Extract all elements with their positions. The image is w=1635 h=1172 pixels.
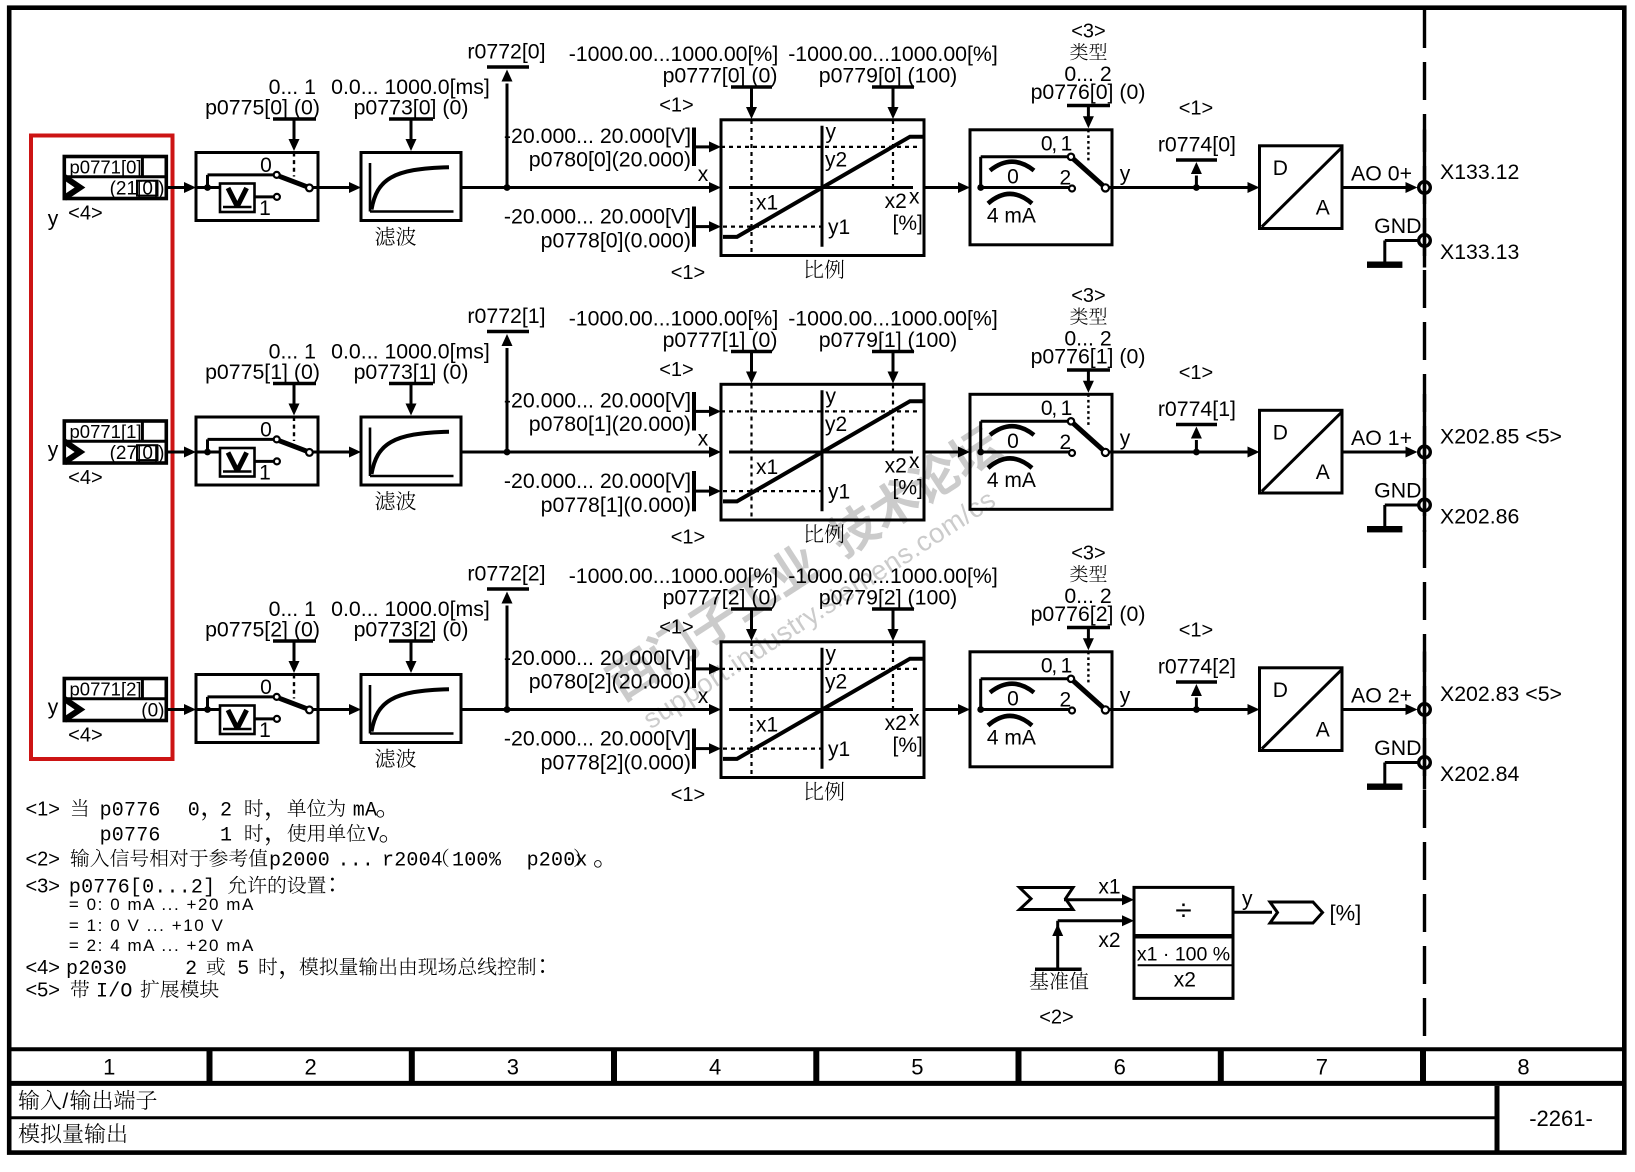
label 类型 (type) row 0 [1070,43,1088,60]
svg-text:4 mA: 4 mA [987,205,1036,228]
svg-text:-20.000... 20.000[V]: -20.000... 20.000[V] [504,469,691,493]
D/A converter row 2 [1260,668,1343,751]
svg-text:y: y [48,696,59,719]
wire switch to filter row 2 [318,708,350,711]
ground symbol row 2 [1385,761,1418,764]
switch block with limiter, p0775[2] [196,675,318,743]
svg-text:p0776: p0776 [100,824,161,847]
svg-text:<2>: <2> [26,848,60,870]
svg-text:1: 1 [259,197,271,220]
svg-text:p0778[2](0.000): p0778[2](0.000) [541,751,691,775]
svg-text:<3>: <3> [26,875,60,897]
svg-text:V: V [368,824,380,847]
wire switch to filter row 1 [318,451,350,454]
svg-text:[%]: [%] [893,477,923,500]
BICO bar and arrow p0779[1] [872,350,914,354]
connector input p0771[0] [64,157,166,200]
svg-text:<1>: <1> [671,262,705,284]
svg-text:(0): (0) [141,701,164,722]
svg-text:<1>: <1> [671,784,705,806]
wire filter to scaling block row 1 [461,451,710,454]
svg-text:p0777[0] (0): p0777[0] (0) [663,63,778,87]
svg-text:6: 6 [1114,1055,1126,1080]
svg-text:<5>: <5> [26,979,60,1001]
svg-text:A: A [1316,718,1330,741]
svg-text:D: D [1273,157,1288,180]
svg-text:<2>: <2> [1039,1007,1073,1029]
terminal X202.84 [1419,757,1431,769]
svg-text:GND: GND [1374,214,1421,238]
svg-text:GND: GND [1374,736,1421,760]
label 类型 (type) row 2 [1070,565,1088,582]
BICO bar and arrow p0773[0] [389,117,433,121]
svg-text:1: 1 [259,461,271,484]
svg-text:[%]: [%] [1330,901,1362,926]
svg-text:y2: y2 [825,149,847,172]
output mode switch block p0776[1] [970,394,1112,509]
svg-text:A: A [1316,461,1330,484]
svg-text:0: 0 [260,154,272,177]
svg-text:0: 0 [188,799,200,822]
svg-text:x: x [909,708,920,731]
svg-text:x2: x2 [1098,929,1120,952]
svg-text:x: x [909,186,920,209]
terminal X133.12 [1419,182,1431,194]
BICO bar and arrow p0775[2] [273,639,316,643]
svg-text:<3>: <3> [1071,20,1105,42]
svg-text:0, 1: 0, 1 [1041,654,1072,677]
svg-text:...: ... [338,849,375,872]
svg-text:x1: x1 [1098,876,1120,899]
svg-text:AO 0+: AO 0+ [1351,162,1412,186]
wire scaling to output switch row 2 [924,708,959,711]
svg-text:-20.000... 20.000[V]: -20.000... 20.000[V] [504,727,691,751]
dashed module border line [1423,10,1426,1049]
svg-text:0, 1: 0, 1 [1041,397,1072,420]
svg-text:<4>: <4> [26,957,60,979]
svg-text:-1000.00...1000.00[%]: -1000.00...1000.00[%] [788,307,998,331]
svg-text:= 1: 0 V ... +10 V: = 1: 0 V ... +10 V [69,916,224,935]
svg-text:-20.000... 20.000[V]: -20.000... 20.000[V] [504,124,691,148]
svg-text:p0776: p0776 [100,799,161,822]
svg-text:0: 0 [260,419,272,442]
BICO bar and arrow p0777[2] [731,607,772,611]
svg-text:y: y [826,385,837,408]
svg-text:x2: x2 [885,190,907,213]
BICO bar and arrow p0776[1] [1067,368,1110,372]
svg-text:X202.84: X202.84 [1440,762,1519,786]
svg-text:[%]: [%] [893,734,923,757]
svg-text:p0780[0](20.000): p0780[0](20.000) [529,148,691,172]
wire filter to scaling block row 2 [461,708,710,711]
svg-text:-20.000... 20.000[V]: -20.000... 20.000[V] [504,205,691,229]
svg-text:x1: x1 [756,456,778,479]
svg-text:p0775[0] (0): p0775[0] (0) [205,96,320,120]
svg-text:0: 0 [260,676,272,699]
wire p0771[0] to switch block [166,186,185,189]
svg-text:y: y [826,643,837,666]
svg-text:y1: y1 [828,738,850,761]
terminal bar and arrow lower input row 0 [692,207,696,247]
BICO bar and arrow p0773[2] [389,639,433,643]
thick separator under numbers [9,1081,1624,1086]
output mode switch block p0776[0] [970,130,1112,245]
svg-text:p0771[2]: p0771[2] [70,679,142,700]
svg-text:p0778[1](0.000): p0778[1](0.000) [541,493,691,517]
solid border segment at terminals row 0 [1423,130,1426,268]
svg-text:<3>: <3> [1071,285,1105,307]
svg-text:r0772[2]: r0772[2] [467,562,545,586]
svg-text:I/O: I/O [96,980,133,1003]
svg-text:x1: x1 [756,192,778,215]
svg-text:x: x [698,685,709,708]
svg-text:r0774[1]: r0774[1] [1158,397,1236,421]
svg-text:0: 0 [1007,166,1019,189]
wire D/A to terminal X133.12 [1342,186,1407,189]
svg-text:x2: x2 [1174,969,1196,992]
wire scaling to output switch row 0 [924,186,959,189]
label 滤波 (filter) row 2 [375,749,394,768]
wire filter to scaling block row 0 [461,186,710,189]
svg-text:2: 2 [220,799,232,822]
D/A converter row 0 [1260,146,1343,229]
wire x1 into division block [1064,898,1123,901]
svg-text:4 mA: 4 mA [987,727,1036,750]
svg-text:p2000: p2000 [269,849,330,872]
svg-text:= 0: 0 mA ... +20 mA: = 0: 0 mA ... +20 mA [69,895,255,914]
reference value input connector flag [1020,888,1074,910]
svg-text:7: 7 [1316,1055,1328,1080]
BICO bar and arrow p0773[1] [389,382,433,386]
filter block p0773[0] [361,153,461,221]
svg-text:D: D [1273,679,1288,702]
terminal bar and arrow lower input row 1 [692,471,696,511]
svg-text:2: 2 [185,958,197,981]
label 基准值 (reference value) [1030,972,1049,990]
svg-text:2: 2 [1059,167,1071,190]
terminal X133.13 [1419,235,1431,247]
svg-text:r0772[0]: r0772[0] [467,40,545,64]
svg-text:X202.83 <5>: X202.83 <5> [1440,682,1562,706]
svg-text:p0779[2] (100): p0779[2] (100) [819,585,958,609]
ground symbol row 1 [1385,504,1418,507]
title row 模拟量输出 [19,1123,40,1143]
svg-text:x2: x2 [885,712,907,735]
svg-text:100: 100 [452,849,489,872]
svg-text:-1000.00...1000.00[%]: -1000.00...1000.00[%] [788,42,998,66]
svg-text:p0777[2] (0): p0777[2] (0) [663,585,778,609]
label 滤波 (filter) row 1 [375,491,394,510]
svg-text:5: 5 [911,1055,923,1080]
terminal bar and arrow upper input row 1 [692,392,696,431]
svg-text:0: 0 [1007,430,1019,453]
svg-text:8: 8 [1517,1055,1529,1080]
label 比例 (scaling) row 2 [806,782,824,801]
label 滤波 (filter) row 0 [375,227,394,246]
svg-text:5: 5 [237,958,249,981]
svg-text:r0774[0]: r0774[0] [1158,133,1236,157]
svg-text:0, 1: 0, 1 [1041,132,1072,155]
svg-text:<1>: <1> [1179,98,1213,120]
svg-text:p0775[2] (0): p0775[2] (0) [205,618,320,642]
svg-text:y1: y1 [828,216,850,239]
wire switch to D/A row 0 [1112,186,1249,189]
svg-text:p0779[0] (100): p0779[0] (100) [819,63,958,87]
svg-text:3: 3 [507,1055,519,1080]
red highlight rectangle around p0771 connectors [31,136,173,760]
wire division output [1233,911,1272,914]
svg-text:y: y [48,439,59,462]
svg-text:p0780[2](20.000): p0780[2](20.000) [529,670,691,694]
arrow up from reference bar [1052,924,1063,936]
svg-text:p0776[1] (0): p0776[1] (0) [1031,345,1146,369]
svg-text:y: y [48,207,59,230]
svg-text:<3>: <3> [1071,542,1105,564]
terminal bar and arrow lower input row 2 [692,729,696,769]
svg-text:1: 1 [259,719,271,742]
svg-text:p0773[0] (0): p0773[0] (0) [354,96,469,120]
switch block with limiter, p0775[0] [196,153,318,221]
column number cells [103,1049,1530,1083]
svg-text:p0771[1]: p0771[1] [70,421,142,442]
svg-text:p2030: p2030 [66,958,127,981]
separator line titles [9,1116,1497,1119]
svg-text:<1>: <1> [659,359,693,381]
wire switch to filter row 0 [318,186,350,189]
svg-text:r2004: r2004 [382,849,443,872]
svg-text:y: y [1242,888,1253,911]
svg-text:p0775[1] (0): p0775[1] (0) [205,360,320,384]
svg-text:x: x [698,163,709,186]
filter block p0773[1] [361,417,461,485]
svg-text:1: 1 [103,1055,115,1080]
svg-text:1: 1 [220,824,232,847]
svg-text:-1000.00...1000.00[%]: -1000.00...1000.00[%] [569,307,779,331]
svg-text:0: 0 [1007,688,1019,711]
svg-text:mA: mA [353,799,377,822]
svg-text:-1000.00...1000.00[%]: -1000.00...1000.00[%] [569,564,779,588]
svg-text:2: 2 [1059,431,1071,454]
BICO bar and arrow p0776[0] [1067,104,1110,108]
svg-text:x1: x1 [756,714,778,737]
D/A converter row 1 [1260,410,1343,493]
svg-text:p0777[1] (0): p0777[1] (0) [663,328,778,352]
wire switch to D/A row 1 [1112,451,1249,454]
solid border segment at terminals row 2 [1423,652,1426,790]
svg-text:= 2: 4 mA ... +20 mA: = 2: 4 mA ... +20 mA [69,936,255,955]
svg-text:y1: y1 [828,481,850,504]
svg-text:p0771[0]: p0771[0] [70,157,142,178]
svg-text:[%]: [%] [893,212,923,235]
label 比例 (scaling) row 0 [806,260,824,279]
title row 输入/输出端子 [19,1090,40,1110]
label 类型 (type) row 1 [1070,308,1088,325]
terminal X202.86 [1419,499,1431,511]
svg-text:<4>: <4> [68,467,102,489]
svg-text:r0774[2]: r0774[2] [1158,655,1236,679]
terminal bar and arrow upper input row 0 [692,128,696,167]
scaling block (比例) row 1 [713,384,924,520]
wire switch to D/A row 2 [1112,708,1249,711]
svg-text:y2: y2 [825,671,847,694]
svg-text:2: 2 [1059,689,1071,712]
svg-text:D: D [1273,422,1288,445]
terminal X202.85 [1419,446,1431,458]
svg-text:<4>: <4> [68,202,102,224]
svg-text:<1>: <1> [1179,620,1213,642]
svg-text:AO 1+: AO 1+ [1351,426,1412,450]
svg-text:x2: x2 [885,455,907,478]
svg-text:y: y [1120,427,1131,450]
svg-text:-20.000... 20.000[V]: -20.000... 20.000[V] [504,388,691,412]
svg-text:p0773[1] (0): p0773[1] (0) [354,360,469,384]
svg-text:y: y [826,121,837,144]
connector input p0771[2] [64,679,166,722]
division block x1*100%/x2 [1134,887,1233,998]
output connector flag [%] [1270,902,1323,923]
svg-text:p0778[0](0.000): p0778[0](0.000) [541,229,691,253]
svg-text:y2: y2 [825,413,847,436]
svg-text:p0779[1] (100): p0779[1] (100) [819,328,958,352]
BICO bar and arrow p0776[2] [1067,626,1110,630]
svg-text:<1>: <1> [1179,362,1213,384]
svg-text:<1>: <1> [671,526,705,548]
wire x2 into division block [1058,919,1123,922]
BICO bar and arrow p0775[0] [273,117,316,121]
svg-text:-2261-: -2261- [1529,1106,1593,1131]
svg-text:2: 2 [304,1055,316,1080]
svg-text:-1000.00...1000.00[%]: -1000.00...1000.00[%] [569,42,779,66]
solid border segment at terminals row 1 [1423,394,1426,532]
svg-text:-1000.00...1000.00[%]: -1000.00...1000.00[%] [788,564,998,588]
svg-text:p0780[1](20.000): p0780[1](20.000) [529,412,691,436]
svg-text:A: A [1316,196,1330,219]
wire p0771[2] to switch block [166,708,185,711]
terminal X202.83 [1419,704,1431,716]
svg-text:GND: GND [1374,479,1421,503]
svg-text:X133.12: X133.12 [1440,160,1519,184]
svg-text:r0772[1]: r0772[1] [467,304,545,328]
output mode switch block p0776[2] [970,652,1112,767]
svg-text:p0773[2] (0): p0773[2] (0) [354,618,469,642]
wire p0771[1] to switch block [166,451,185,454]
svg-text:/: / [62,1090,68,1113]
svg-text:<1>: <1> [659,94,693,116]
svg-text:<4>: <4> [68,724,102,746]
wire scaling to output switch row 1 [924,451,959,454]
BICO bar and arrow p0779[2] [872,607,914,611]
BICO bar and arrow p0777[1] [731,350,772,354]
scaling block (比例) row 0 [713,120,924,256]
reference value terminal bar [1035,967,1082,971]
svg-text:4: 4 [709,1055,721,1080]
BICO bar and arrow p0777[0] [731,85,772,89]
svg-text:X133.13: X133.13 [1440,240,1519,264]
wire D/A to terminal X202.85 [1342,451,1407,454]
svg-text:%: % [489,849,502,872]
svg-text:x: x [909,450,920,473]
svg-text:x1 · 100 %: x1 · 100 % [1137,944,1230,966]
watermark siemens forum [601,420,1027,739]
svg-text:p0776[0] (0): p0776[0] (0) [1031,80,1146,104]
terminal bar and arrow upper input row 2 [692,650,696,689]
svg-text:4 mA: 4 mA [987,469,1036,492]
BICO bar and arrow p0779[0] [872,85,914,89]
switch block with limiter, p0775[1] [196,417,318,485]
label 比例 (scaling) row 1 [806,524,824,543]
table top line [9,1047,1624,1051]
svg-text:p0776[2] (0): p0776[2] (0) [1031,602,1146,626]
connector input p0771[1] [64,421,166,464]
svg-text:y: y [1120,685,1131,708]
filter block p0773[2] [361,675,461,743]
svg-text:÷: ÷ [1175,894,1191,927]
svg-text:-20.000... 20.000[V]: -20.000... 20.000[V] [504,646,691,670]
svg-text:X202.86: X202.86 [1440,505,1519,529]
wire D/A to terminal X202.83 [1342,708,1407,711]
BICO bar and arrow p0775[1] [273,382,316,386]
ground symbol row 0 [1385,239,1418,242]
svg-text:y: y [1120,163,1131,186]
scaling block (比例) row 2 [713,642,924,778]
svg-text:X202.85 <5>: X202.85 <5> [1440,425,1562,449]
function plan number box [1495,1086,1500,1152]
svg-text:<1>: <1> [659,616,693,638]
svg-text:x: x [698,427,709,450]
svg-text:AO 2+: AO 2+ [1351,684,1412,708]
svg-text:<1>: <1> [26,798,60,820]
